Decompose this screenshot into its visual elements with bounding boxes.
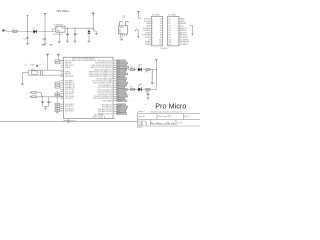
IC U1 ATMEGA32U4 xyxy=(64,57,114,119)
ground (reset caps) xyxy=(43,104,49,110)
svg-text:D1: D1 xyxy=(33,28,35,30)
connector J1 USB xyxy=(119,14,129,35)
net labels left of J4 xyxy=(143,19,152,47)
svg-text:released under Creative Common: released under Creative Commons CC xyxy=(150,110,183,113)
svg-text:Title: Title xyxy=(139,126,142,128)
svg-text:C2: C2 xyxy=(39,64,41,66)
wire XTAL2 xyxy=(28,74,63,76)
svg-text:IN: IN xyxy=(56,27,58,29)
svg-text:R6: R6 xyxy=(146,91,148,93)
svg-text:Rev: Y: Rev: Y xyxy=(184,116,190,118)
ground (C3) xyxy=(26,40,29,45)
svg-text:UGND GND GND AGND AGND: UGND GND GND AGND AGND xyxy=(72,59,97,62)
regulator U2 MIC5219 xyxy=(53,24,65,36)
pin stubs left of U1 xyxy=(60,61,63,111)
svg-text:22pF: 22pF xyxy=(30,64,34,66)
resistor R4 xyxy=(146,69,150,74)
sheet frame bottom xyxy=(0,120,137,122)
svg-text:J5 CONN: J5 CONN xyxy=(168,15,176,17)
svg-text:MIC5219-5.0: MIC5219-5.0 xyxy=(53,34,62,36)
svg-text:PD5 XCK1: PD5 XCK1 xyxy=(65,111,74,113)
svg-text:Id: 1/1: Id: 1/1 xyxy=(177,123,182,125)
wire reset net xyxy=(29,92,64,97)
wire regulator input xyxy=(53,29,56,32)
power flag +5V xyxy=(91,12,95,32)
svg-text:D9/A9: D9/A9 xyxy=(145,43,151,46)
resistor R6 xyxy=(146,88,150,93)
svg-text:Pro_Micro_v13b.sch: Pro_Micro_v13b.sch xyxy=(151,122,176,126)
resistor R5 xyxy=(130,87,134,91)
plus mark xyxy=(130,98,147,106)
svg-text:D3: D3 xyxy=(138,85,140,87)
power rail +5V (LEDs) xyxy=(155,60,158,90)
wire RX LED net xyxy=(124,89,156,91)
svg-text:F1: F1 xyxy=(13,29,15,31)
svg-text:C3: C3 xyxy=(24,38,26,40)
svg-text:J4 CONN: J4 CONN xyxy=(152,15,160,17)
capacitor C3 xyxy=(24,15,29,41)
wire GND column xyxy=(56,90,58,110)
svg-text:+: + xyxy=(133,98,134,100)
capacitor C10 xyxy=(151,69,155,85)
caption headers xyxy=(160,48,170,50)
svg-text:D10/A10: D10/A10 xyxy=(180,43,189,46)
text Pro Micro xyxy=(155,102,186,111)
capacitor C7 xyxy=(47,97,52,104)
connector J5 xyxy=(168,15,179,46)
connector J4 xyxy=(151,15,162,46)
ground (crystal) xyxy=(21,82,24,85)
capacitor C5 xyxy=(74,28,79,36)
svg-text:R4: R4 xyxy=(146,72,148,74)
svg-text:ATMEGA32U4: ATMEGA32U4 xyxy=(64,119,76,122)
svg-text:Sheet: /: Sheet: / xyxy=(138,110,145,113)
svg-text:CONN 12: CONN 12 xyxy=(160,48,170,50)
connector J8 power jack xyxy=(2,30,6,32)
svg-text:+: + xyxy=(26,98,28,100)
ground (J1) xyxy=(120,38,123,41)
power flag AVCC (U1 top) xyxy=(57,54,64,60)
svg-text:C7: C7 xyxy=(50,102,52,104)
svg-text:XTAL1: XTAL1 xyxy=(65,66,70,69)
resistor R2 xyxy=(32,96,36,98)
ground (U1 left) xyxy=(56,110,59,113)
net tie shield xyxy=(135,29,139,38)
ferrite bead F1 xyxy=(13,29,18,33)
resistor R3 xyxy=(130,67,134,71)
svg-text:Date: 8 apr 2016: Date: 8 apr 2016 xyxy=(158,115,171,118)
svg-text:+: + xyxy=(145,103,147,106)
LED D2 xyxy=(138,64,142,71)
LED D8 power xyxy=(88,28,91,39)
svg-text:Size: A4: Size: A4 xyxy=(138,115,145,118)
crystal Y1 xyxy=(31,69,42,75)
svg-text:J1: J1 xyxy=(122,14,125,18)
power flag VCC (U1 top) xyxy=(46,54,49,70)
svg-text:+: + xyxy=(26,93,28,95)
capacitor C1 C2 labels xyxy=(25,62,45,67)
LED D3 xyxy=(138,84,142,91)
net label RST xyxy=(26,93,28,100)
wire XTAL1 xyxy=(28,69,63,71)
wire HWB net xyxy=(105,117,116,119)
title block texts xyxy=(138,110,190,129)
svg-text:C4: C4 xyxy=(41,39,43,41)
title block xyxy=(137,112,200,128)
svg-text:C1: C1 xyxy=(25,64,27,66)
pin stubs right of U1 xyxy=(113,61,116,114)
wire RAW input rail xyxy=(6,31,57,33)
capacitor C12 xyxy=(66,28,69,36)
wire J1 pins xyxy=(121,34,127,37)
svg-text:C5: C5 xyxy=(76,34,78,36)
svg-text:UGND UCAP: UGND UCAP xyxy=(92,116,104,119)
svg-text:Pro Micro: Pro Micro xyxy=(155,102,186,111)
capacitor C4 xyxy=(41,14,46,41)
svg-text:+: + xyxy=(130,100,132,102)
ground (C11) xyxy=(147,96,150,99)
ground (D8) xyxy=(87,39,90,42)
net labels right of J5 xyxy=(179,18,190,47)
svg-text:+: + xyxy=(154,82,155,84)
svg-text:o: o xyxy=(152,44,153,46)
svg-text:PD1 INT1: PD1 INT1 xyxy=(65,98,73,100)
wire +5V output rail xyxy=(65,27,93,29)
power flag VCC (headers) xyxy=(137,12,141,19)
label U1 ATMEGA32U4 xyxy=(64,119,76,122)
diode D1 xyxy=(33,28,37,33)
capacitor C11 xyxy=(147,90,150,96)
svg-text:+: + xyxy=(25,62,26,64)
svg-text:o: o xyxy=(177,44,178,46)
net label boxes left of U1 xyxy=(55,60,60,112)
svg-text:Y1: Y1 xyxy=(31,69,33,71)
svg-text:PE2 (HWB): PE2 (HWB) xyxy=(103,100,113,102)
svg-text:D2: D2 xyxy=(138,66,140,68)
svg-text:<12: <12 xyxy=(168,43,171,46)
ground (C4) xyxy=(43,41,46,45)
wire TX LED net xyxy=(124,69,156,71)
capacitor C6 xyxy=(41,96,44,104)
svg-text:+: + xyxy=(43,62,44,64)
junction dots top xyxy=(42,44,53,46)
svg-text:U2 MIC5219: U2 MIC5219 xyxy=(54,24,64,26)
svg-text:+5V REG: +5V REG xyxy=(56,9,70,13)
resistor R1 xyxy=(32,91,36,93)
text +5V REG xyxy=(56,9,70,13)
svg-text:R3: R3 xyxy=(130,67,132,69)
junction node VBUS xyxy=(93,28,98,35)
ground (U1 bottom) xyxy=(67,119,70,123)
net labels right of U1 xyxy=(116,60,129,115)
ground (C12) xyxy=(66,36,69,43)
ground (C5) xyxy=(73,36,76,43)
ground (U2) xyxy=(58,32,61,43)
wire crystal left rail xyxy=(22,70,28,82)
svg-text:OUT: OUT xyxy=(61,27,64,29)
svg-text:PB2 MOSI: PB2 MOSI xyxy=(65,76,74,78)
svg-text:R5: R5 xyxy=(130,87,132,89)
wire RAW to arrow xyxy=(189,24,194,35)
